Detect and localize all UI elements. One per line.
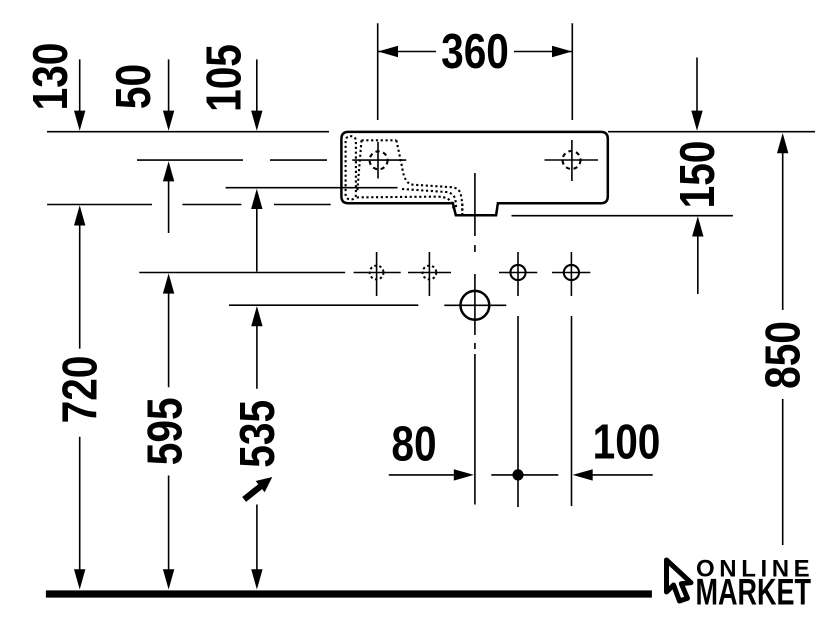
dimension 150: bottom arrow (692, 216, 703, 236)
svg-text:50: 50 (105, 64, 160, 109)
dimension 105: bottom arrow (251, 189, 262, 209)
hidden bowl outline (dotted) (357, 140, 462, 214)
drain circle horizontal crosshair (444, 304, 506, 306)
dimension 80 line (389, 474, 455, 476)
hidden overflow channel (dotted) (346, 136, 356, 199)
svg-text:360: 360 (441, 23, 509, 78)
dimension 360: dimension line (379, 51, 572, 53)
dimension 130: top arrow (79, 59, 81, 112)
dimension 360: extension lines (378, 23, 573, 120)
floor line (46, 590, 652, 597)
svg-text:80: 80 (391, 416, 436, 471)
dimension 360: right arrowhead (552, 46, 572, 57)
tap hole 2 in section: dashed circle (563, 151, 581, 169)
reference line 535 level (229, 304, 418, 306)
dimension 50: bottom arrow (163, 161, 174, 181)
tap hole 1 in section: dashed circle (370, 151, 388, 169)
faucet hole C (solid circle) (510, 265, 525, 280)
dimension 850 line (777, 133, 788, 153)
dimension 360: left arrowhead (378, 46, 398, 57)
dimension 150: top arrow (696, 58, 698, 113)
tap hole 2 centerline horizontal (545, 159, 599, 161)
washbasin outline (side view) (341, 132, 607, 215)
top reference line (rim level) (47, 131, 815, 133)
drain centerline (474, 173, 476, 505)
tap hole 1 centerline vertical (377, 142, 379, 179)
adjustable-height arrow symbol (240, 471, 277, 505)
dimension 50: top arrow (168, 59, 170, 112)
faucet hole B (dotted circle) (423, 266, 437, 280)
faucet hole D (solid circle) (564, 265, 579, 280)
svg-text:720: 720 (52, 356, 107, 424)
shared terminator dot (491, 474, 558, 476)
svg-text:100: 100 (593, 414, 661, 469)
dimension 105: top arrow (256, 59, 258, 112)
hidden basin floor lines (dotted) (357, 189, 456, 209)
svg-text:150: 150 (669, 141, 724, 209)
dimension 100 line (573, 469, 593, 480)
reference line 50 level (137, 159, 406, 161)
svg-text:595: 595 (137, 397, 192, 465)
svg-text:535: 535 (229, 400, 284, 468)
logo cursor icon (667, 560, 692, 601)
logo text MARKET (696, 571, 812, 612)
faucet holes row line (139, 272, 590, 274)
svg-text:105: 105 (196, 44, 251, 112)
drain circle (461, 291, 490, 320)
tap hole 2 centerline vertical (571, 140, 573, 181)
reference line 130 level (dashed) (47, 204, 331, 206)
svg-text:MARKET: MARKET (696, 571, 812, 612)
dimension 535 line (251, 306, 262, 326)
svg-text:130: 130 (23, 43, 78, 111)
dimension 595 line (163, 273, 174, 293)
faucet hole A (dotted circle) (370, 266, 384, 280)
svg-text:850: 850 (755, 321, 810, 389)
reference line 150 bottom level (512, 215, 733, 217)
water supply extension lines (518, 316, 572, 507)
drain spigot dotted edge (461, 204, 463, 215)
reference line 105 level (226, 187, 398, 189)
dimension 720 line (74, 205, 85, 225)
